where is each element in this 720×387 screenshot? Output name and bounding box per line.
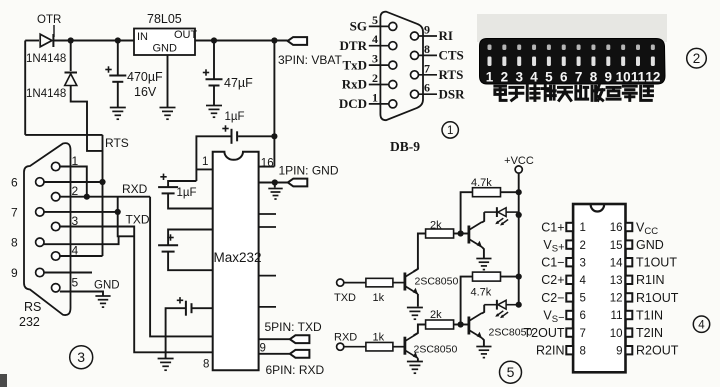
DB-9 pin 3 circle <box>389 61 397 69</box>
wire 78L05 GND pin down <box>167 55 169 108</box>
pin contact 10 top <box>621 45 625 51</box>
wire 1k to Q3 base <box>393 346 405 348</box>
svg-text:RTS: RTS <box>105 136 129 150</box>
svg-text:2SC8050: 2SC8050 <box>414 344 458 356</box>
wire capC bottom to chip <box>168 252 213 271</box>
wire 2k1 to T2 base <box>453 233 469 235</box>
pin stub right 12 <box>259 275 276 277</box>
pin 12 box <box>626 293 633 301</box>
svg-text:5: 5 <box>72 275 79 289</box>
transistor Q3 2SC8050 <box>405 333 418 358</box>
svg-text:10: 10 <box>610 328 623 340</box>
caption text (Chinese) 电子制作天地收藏整理 <box>495 86 506 100</box>
wire capB bottom to chip <box>168 193 213 208</box>
scan smudge bottom left <box>0 374 7 387</box>
svg-text:2: 2 <box>580 240 586 252</box>
svg-text:4: 4 <box>698 319 705 331</box>
connector flag 3PIN VBAT <box>288 37 308 45</box>
circled 1 <box>442 122 458 138</box>
wire pin 1 <box>369 103 389 105</box>
wire diode D1 anode <box>25 40 39 42</box>
svg-text:1k: 1k <box>373 332 385 344</box>
svg-text:DCD: DCD <box>339 96 367 111</box>
svg-text:T2OUT: T2OUT <box>524 326 565 340</box>
pin contact 5 top <box>547 45 551 51</box>
junction VBAT node <box>271 37 277 43</box>
wire D1 to 78L05 IN <box>54 40 134 42</box>
capacitor C_D (bottom, horizontal) <box>192 307 213 309</box>
svg-text:RS: RS <box>24 300 41 314</box>
junction rail/LED2 <box>516 302 522 308</box>
svg-text:1µF: 1µF <box>177 187 197 199</box>
wire pin 5 <box>369 25 389 27</box>
DB9 pin 8 circle <box>36 238 44 246</box>
ground pin5 <box>95 296 110 307</box>
DB9 pin 4 circle <box>52 252 60 260</box>
svg-text:3: 3 <box>77 349 85 365</box>
junction node D1/D2 <box>68 37 74 43</box>
svg-text:RxD: RxD <box>342 77 367 92</box>
svg-text:1N4148: 1N4148 <box>26 53 66 65</box>
transistor Q2 2SC8050 <box>469 222 482 247</box>
wire Q3 collector to 2k2 <box>414 325 426 336</box>
pin 10 box <box>626 328 633 336</box>
wire pin6 <box>44 181 103 183</box>
DIP16 IC body (region 4) <box>573 204 625 372</box>
svg-text:OUT: OUT <box>174 29 198 41</box>
svg-text:4: 4 <box>530 70 538 85</box>
svg-text:11: 11 <box>631 70 646 85</box>
capacitor C_C (left mid) <box>168 230 213 246</box>
wire 1k to Q1 base <box>393 282 405 284</box>
pin stub right 13 <box>259 226 276 228</box>
DB9 pin 3 circle <box>52 222 60 230</box>
pin contact 12 top <box>651 45 655 51</box>
svg-text:2SC8050: 2SC8050 <box>415 276 459 288</box>
svg-text:1: 1 <box>372 90 378 104</box>
wire RTS vertical to pin4 <box>102 135 104 256</box>
diode D1 1N4148 (OTR) <box>40 34 53 47</box>
wire pin9 to 6PIN RXD <box>259 353 290 355</box>
svg-text:VS+: VS+ <box>543 238 564 255</box>
pin contact 6 bottom <box>562 57 566 67</box>
DB9 pin 6 circle <box>36 178 44 186</box>
connector flag 6PIN RXD <box>290 350 310 358</box>
VCC terminal circle <box>515 166 522 173</box>
pin contact 6 top <box>562 45 566 51</box>
svg-text:DTR: DTR <box>340 38 368 53</box>
pin contact 3 bottom <box>517 57 521 67</box>
svg-text:Max232: Max232 <box>214 250 262 265</box>
pin 13 box <box>626 276 633 284</box>
pin 1 box <box>566 223 573 231</box>
svg-text:6: 6 <box>580 310 586 322</box>
connector flag 5PIN TXD <box>290 335 310 343</box>
pin contact 9 bottom <box>606 57 610 67</box>
svg-text:9: 9 <box>11 266 18 280</box>
diode D2 1N4148 (vertical) <box>70 41 72 72</box>
circled 5 <box>500 361 522 383</box>
svg-text:1PIN: GND: 1PIN: GND <box>279 164 339 178</box>
svg-text:6: 6 <box>560 70 568 85</box>
svg-text:3: 3 <box>580 257 586 269</box>
opto LED D4 <box>484 300 519 318</box>
wire TXD node down to bus <box>118 212 135 236</box>
ground under Q4 <box>476 347 491 358</box>
wire pin 2 <box>369 84 389 86</box>
svg-text:1µF: 1µF <box>225 111 245 123</box>
svg-text:2: 2 <box>372 71 378 85</box>
pin contact 7 bottom <box>577 57 581 67</box>
svg-text:T2IN: T2IN <box>636 326 663 340</box>
DB-9 pin 8 circle <box>411 51 419 59</box>
wire D2 cathode down to RTS node <box>71 86 103 151</box>
pin contact 2 bottom <box>502 57 506 67</box>
wire left rail down <box>24 41 26 135</box>
wire 47uF to ground <box>213 86 215 106</box>
junction 47uF tap <box>211 37 217 43</box>
wire T2 collector to LED1 <box>482 212 484 222</box>
wire Q4 emitter to ground <box>482 338 484 347</box>
transistor Q1 2SC8050 <box>405 269 418 294</box>
svg-text:OTR: OTR <box>37 14 61 26</box>
pin contact 9 top <box>606 45 610 51</box>
svg-text:12: 12 <box>645 70 660 85</box>
svg-text:1: 1 <box>580 222 586 234</box>
wire 2k2 to Q4 base <box>453 324 469 326</box>
wire 4.7k2 left to base node <box>461 277 473 325</box>
pin contact 12 bottom <box>651 57 655 67</box>
DB9 pin 7 circle <box>36 208 44 216</box>
wire RXD down to Max232 <box>150 197 213 337</box>
pin 6 box <box>566 311 573 319</box>
svg-text:GND: GND <box>636 238 664 252</box>
connector flag 1PIN GND <box>288 179 308 187</box>
svg-text:7: 7 <box>424 61 430 75</box>
wire T2 emitter to ground <box>482 247 484 259</box>
pin contact 5 bottom <box>547 57 551 67</box>
pin 4 box <box>566 276 573 284</box>
wire pin15 GND <box>259 182 288 184</box>
svg-text:GND: GND <box>153 43 178 55</box>
ground 1PIN <box>268 189 282 200</box>
capacitor C_B 1uF (left) <box>168 181 196 187</box>
wire capA left to pin1 node <box>196 136 231 181</box>
wire pin 8 <box>419 54 437 56</box>
svg-text:16: 16 <box>261 158 274 170</box>
svg-text:C1+: C1+ <box>541 220 564 234</box>
svg-text:5: 5 <box>507 364 515 380</box>
TXD input circle <box>337 279 344 286</box>
junction base Q4 <box>458 321 464 327</box>
svg-text:C2+: C2+ <box>541 273 564 287</box>
pin contact 8 top <box>591 45 595 51</box>
svg-text:DSR: DSR <box>439 86 466 101</box>
wire RXD to 1k <box>344 346 366 348</box>
DB-9 pin 9 circle <box>411 32 419 40</box>
ground under Q1 <box>407 308 423 320</box>
pin contact 11 top <box>636 45 640 51</box>
svg-text:T1OUT: T1OUT <box>636 256 677 270</box>
DB-9 pin 4 circle <box>389 42 397 50</box>
wire VBAT down to pin16 <box>273 41 275 167</box>
wire RTS horizontal <box>25 134 102 136</box>
ground under 47uF <box>206 106 222 118</box>
wire pin4 to RTS vertical <box>60 255 103 257</box>
svg-text:R2OUT: R2OUT <box>636 344 679 358</box>
svg-text:11: 11 <box>611 310 623 322</box>
svg-text:4.7k: 4.7k <box>471 177 492 189</box>
wire Q3 emitter to ground <box>417 358 419 361</box>
junction pin1/pin2 <box>84 194 90 200</box>
svg-text:R1IN: R1IN <box>636 273 664 287</box>
wire VCC rail <box>518 173 520 305</box>
pin contact 7 top <box>577 45 581 51</box>
resistor 2k (top) <box>426 229 454 238</box>
svg-text:5PIN: TXD: 5PIN: TXD <box>265 320 322 334</box>
svg-text:VS−: VS− <box>543 308 564 325</box>
ground under 78L05 <box>160 108 176 120</box>
DB9 pin 1 circle <box>52 162 60 170</box>
svg-text:8: 8 <box>424 42 430 56</box>
resistor 1k (TXD) <box>366 278 393 287</box>
pin 11 box <box>626 311 633 319</box>
svg-text:10: 10 <box>616 70 631 85</box>
svg-text:TxD: TxD <box>342 57 367 72</box>
svg-text:9: 9 <box>260 343 266 355</box>
wire pin5 to GND <box>60 292 103 297</box>
svg-text:VCC: VCC <box>636 220 658 237</box>
svg-text:2: 2 <box>693 51 701 66</box>
svg-text:9: 9 <box>424 23 430 37</box>
pin stub right 11 <box>259 306 276 308</box>
DB9 pin 5 circle <box>52 284 60 292</box>
DB9 RS232 connector body <box>24 143 71 315</box>
svg-text:R1OUT: R1OUT <box>636 291 679 305</box>
wire pin1 to pin2 junction <box>60 167 87 197</box>
svg-text:7: 7 <box>575 70 583 85</box>
wire pin9 stub <box>44 272 92 274</box>
resistor 2k (bottom) <box>426 320 454 329</box>
svg-text:T1IN: T1IN <box>636 308 663 322</box>
pin contact 2 top <box>502 45 506 51</box>
wire Q1 collector to 2k1 <box>417 268 419 270</box>
pin 16 box <box>626 223 633 231</box>
svg-text:8: 8 <box>203 359 209 371</box>
junction rail/4.7k1 <box>516 189 522 195</box>
resistor 4.7k (bottom) <box>473 272 501 281</box>
svg-text:DB-9: DB-9 <box>390 139 420 154</box>
pin 9 box <box>626 346 633 354</box>
pin 3 box <box>566 258 573 266</box>
pin 7 box <box>566 328 573 336</box>
svg-text:C2−: C2− <box>541 291 564 305</box>
pin 8 box <box>566 346 573 354</box>
DB-9 pin 5 circle <box>389 22 397 30</box>
pin contact 10 bottom <box>621 57 625 67</box>
svg-text:5: 5 <box>580 293 586 305</box>
wire pin 6 <box>419 93 437 95</box>
svg-text:1: 1 <box>447 125 453 137</box>
svg-text:RXD: RXD <box>122 182 148 196</box>
ground under Q3 <box>407 362 423 374</box>
svg-text:3PIN: VBAT: 3PIN: VBAT <box>278 53 342 67</box>
wire pin2 RXD <box>60 196 150 198</box>
pin contact 8 bottom <box>591 57 595 67</box>
svg-text:12: 12 <box>610 293 623 305</box>
DB9 pin 9 circle <box>36 268 44 276</box>
12-pin connector photo <box>480 39 666 85</box>
circled 2 <box>687 48 707 68</box>
wire pin 7 <box>419 74 437 76</box>
svg-text:6: 6 <box>11 175 18 189</box>
wire pin3 <box>60 227 213 353</box>
junction base T2 <box>458 230 464 236</box>
wire pin2 branch down <box>117 197 119 212</box>
wire TXD to 1k <box>344 282 366 284</box>
regulator 78L05 box <box>134 29 195 56</box>
svg-text:2k: 2k <box>430 309 442 321</box>
pin contact 11 bottom <box>636 57 640 67</box>
pin contact 3 top <box>517 45 521 51</box>
svg-text:2k: 2k <box>430 220 442 232</box>
DB-9 connector outline (region 1) <box>380 12 423 121</box>
svg-text:C1−: C1− <box>541 256 564 270</box>
svg-text:13: 13 <box>610 275 623 287</box>
junction rail/4.7k2 <box>516 274 522 280</box>
svg-text:8: 8 <box>580 345 586 357</box>
circled 3 <box>70 346 93 369</box>
svg-text:6: 6 <box>424 81 430 95</box>
svg-text:CTS: CTS <box>439 48 464 63</box>
DIP16 notch <box>591 205 604 212</box>
pin contact 1 top <box>488 45 492 51</box>
ground under capD <box>158 359 174 371</box>
circled 4 <box>693 316 709 332</box>
svg-text:9: 9 <box>605 70 613 85</box>
DB-9 pin 7 circle <box>411 71 419 79</box>
svg-text:RI: RI <box>439 28 453 43</box>
wire 4.7k2 to rail <box>501 276 519 278</box>
junction 470uF tap <box>115 37 121 43</box>
junction TXD node <box>115 209 121 215</box>
DB-9 pin 1 circle <box>389 100 397 108</box>
svg-text:4.7k: 4.7k <box>471 287 492 299</box>
svg-text:7: 7 <box>580 328 586 340</box>
svg-text:1k: 1k <box>373 292 385 304</box>
pin 14 box <box>626 258 633 266</box>
svg-text:78L05: 78L05 <box>147 12 182 26</box>
svg-text:3: 3 <box>515 70 523 85</box>
wire pin 3 <box>369 64 389 66</box>
svg-text:4: 4 <box>580 275 587 287</box>
DB-9 pin 6 circle <box>411 90 419 98</box>
svg-text:TXD: TXD <box>334 292 356 304</box>
pin 15 box <box>626 240 633 248</box>
junction capA right <box>271 133 277 139</box>
DB-9 pin 2 circle <box>389 81 397 89</box>
wire pin 9 <box>419 35 437 37</box>
svg-text:1: 1 <box>202 156 208 168</box>
svg-text:SG: SG <box>350 19 367 34</box>
pin 5 box <box>566 293 573 301</box>
svg-text:R2IN: R2IN <box>536 344 564 358</box>
wire Q1 emitter to ground <box>417 294 419 307</box>
resistor 4.7k (top) <box>473 188 501 197</box>
svg-text:IN: IN <box>137 31 148 43</box>
capacitor 47uF <box>213 41 215 80</box>
svg-text:5: 5 <box>372 13 378 27</box>
svg-text:16V: 16V <box>134 85 157 99</box>
transistor Q4 2SC8050 <box>469 313 482 338</box>
svg-text:470µF: 470µF <box>127 70 163 84</box>
svg-text:1: 1 <box>486 70 494 85</box>
ground under 470uF <box>110 108 126 120</box>
svg-text:4: 4 <box>372 32 378 46</box>
RXD input circle <box>337 343 344 350</box>
DB9 pin 2 circle <box>52 193 60 201</box>
wire cap C470 to ground <box>117 82 119 108</box>
wire pin16 <box>259 166 275 168</box>
ground under Q2 <box>476 259 491 270</box>
wire to cap C470 top <box>117 41 119 76</box>
svg-text:15: 15 <box>610 240 623 252</box>
svg-text:RXD: RXD <box>334 332 357 344</box>
wire Q4 collector to LED2 <box>482 305 484 314</box>
svg-text:3: 3 <box>372 52 378 66</box>
svg-text:8: 8 <box>11 236 18 250</box>
wire into pin1 <box>196 168 212 170</box>
junction GND node <box>272 179 278 185</box>
pin contact 1 bottom <box>488 57 492 67</box>
pin contact 4 top <box>532 45 536 51</box>
svg-text:14: 14 <box>610 257 623 269</box>
wire pin10 to 5PIN TXD <box>259 338 290 340</box>
svg-text:1N4148: 1N4148 <box>26 88 66 100</box>
opto LED D3 <box>484 207 519 225</box>
svg-text:9: 9 <box>616 345 622 357</box>
svg-text:2: 2 <box>501 70 509 85</box>
resistor 1k (RXD) <box>366 342 393 351</box>
OTR leader line <box>53 25 55 37</box>
svg-text:232: 232 <box>19 315 40 329</box>
pin contact 4 bottom <box>532 57 536 67</box>
Max232 IC body <box>213 152 259 370</box>
pin stub right 14 <box>259 213 276 215</box>
svg-text:5: 5 <box>545 70 553 85</box>
pin 2 box <box>566 240 573 248</box>
svg-text:47µF: 47µF <box>224 76 253 90</box>
wire 4.7k1 left to base node <box>461 192 473 233</box>
svg-text:GND: GND <box>94 280 120 292</box>
junction RTS/pin6 wire <box>99 179 105 185</box>
junction rail/LED1 <box>516 212 522 218</box>
wire capD left down to ground <box>166 308 186 358</box>
wire 78L05 OUT to VBAT <box>195 40 288 42</box>
svg-text:6PIN: RXD: 6PIN: RXD <box>266 363 325 377</box>
wire pin8 up to TXD jog <box>44 236 119 244</box>
svg-text:7: 7 <box>11 205 18 219</box>
svg-text:TXD: TXD <box>126 213 150 227</box>
wire 4.7k1 to rail <box>501 191 519 193</box>
wire pin7 <box>44 211 118 213</box>
wire pin 4 <box>369 45 389 47</box>
svg-text:16: 16 <box>610 222 623 234</box>
photo background <box>477 14 667 42</box>
svg-text:8: 8 <box>590 70 598 85</box>
svg-text:RTS: RTS <box>439 67 464 82</box>
